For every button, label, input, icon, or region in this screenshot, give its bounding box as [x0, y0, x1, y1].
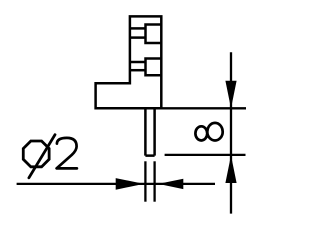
notch square 2 (lower contact block)	[146, 59, 162, 76]
part body outline (L-shaped housing with column)	[96, 16, 162, 108]
notch 2 lower stub line	[130, 69, 146, 72]
diameter dimension right arrowhead	[158, 179, 183, 189]
extension line at pin bottom (for height dimension)	[165, 154, 246, 156]
notch 1 lower stub line	[130, 36, 146, 39]
extension line below pin left edge	[144, 161, 146, 201]
diameter symbol slash	[29, 135, 55, 178]
diameter dimension line (continuous)	[17, 183, 215, 185]
notch square 1 (upper contact block)	[146, 25, 162, 44]
height dimension lower arrowhead (pointing up)	[225, 155, 236, 183]
extension line at body bottom (for height dimension)	[161, 107, 246, 109]
notch 2 upper stub line	[130, 61, 146, 64]
pin (terminal leg)	[145, 108, 154, 155]
diameter symbol circle of label "Ø2"	[23, 141, 49, 167]
dimension text "8" (rotated): big loop	[207, 123, 222, 141]
dimension text "2"	[57, 138, 77, 169]
height dimension line (continuous)	[230, 52, 232, 213]
extension line below pin right edge	[153, 161, 155, 201]
dimension text "8" (rotated): small loop	[195, 126, 207, 140]
height dimension upper arrowhead (pointing down)	[225, 81, 236, 109]
diameter dimension left arrowhead	[116, 178, 144, 190]
notch 1 upper stub line	[130, 27, 146, 30]
